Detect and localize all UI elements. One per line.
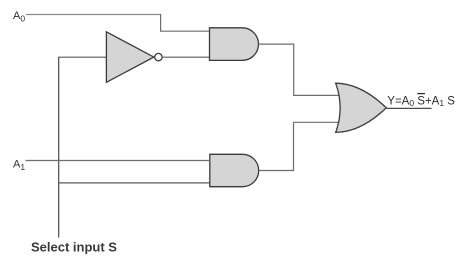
svg-text:A0: A0 — [13, 10, 25, 24]
svg-text:Select input S: Select input S — [31, 240, 117, 255]
wire A1 to AND2 input — [26, 160, 210, 162]
AND gate U3 (bottom) — [210, 154, 259, 186]
AND gate U2 (top) — [210, 28, 259, 61]
wire select vertical — [58, 57, 60, 238]
wire OR output — [386, 107, 431, 109]
wire AND2 output to OR bottom input — [259, 122, 339, 170]
inverter U1 — [106, 32, 162, 83]
overbar on first S — [417, 93, 425, 95]
svg-text:Y=A0 S+A1 S: Y=A0 S+A1 S — [387, 95, 455, 108]
wire inverter output to AND1 — [163, 56, 210, 58]
wire select to inverter input — [59, 56, 107, 58]
wire AND1 output to OR top input — [259, 44, 339, 95]
svg-text:A1: A1 — [13, 159, 25, 173]
OR gate U4 — [336, 83, 387, 132]
wire select to AND2 input — [59, 182, 210, 184]
wire A0 jog down to AND1 input — [161, 14, 210, 31]
wire A0 horizontal — [26, 14, 161, 16]
